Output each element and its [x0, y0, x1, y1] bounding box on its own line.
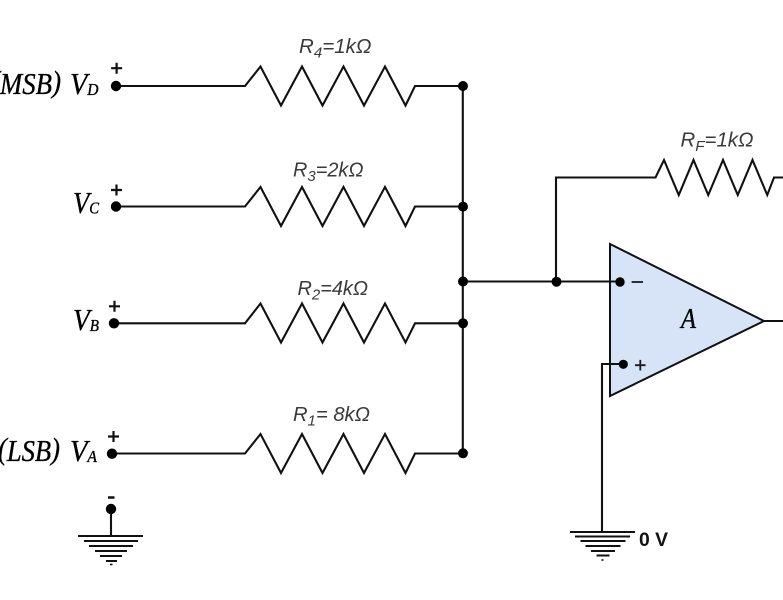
svg-text:RF=1kΩ: RF=1kΩ — [681, 129, 754, 155]
svg-text:A: A — [679, 303, 696, 335]
svg-text:(MSB): (MSB) — [0, 64, 61, 101]
svg-text:R1= 8kΩ: R1= 8kΩ — [293, 404, 370, 430]
svg-text:R3=2kΩ: R3=2kΩ — [293, 160, 364, 186]
svg-text:0 V: 0 V — [639, 530, 668, 551]
svg-text:(LSB): (LSB) — [0, 431, 60, 468]
svg-text:R2=4kΩ: R2=4kΩ — [298, 278, 369, 304]
svg-text:R4=1kΩ: R4=1kΩ — [299, 36, 372, 62]
